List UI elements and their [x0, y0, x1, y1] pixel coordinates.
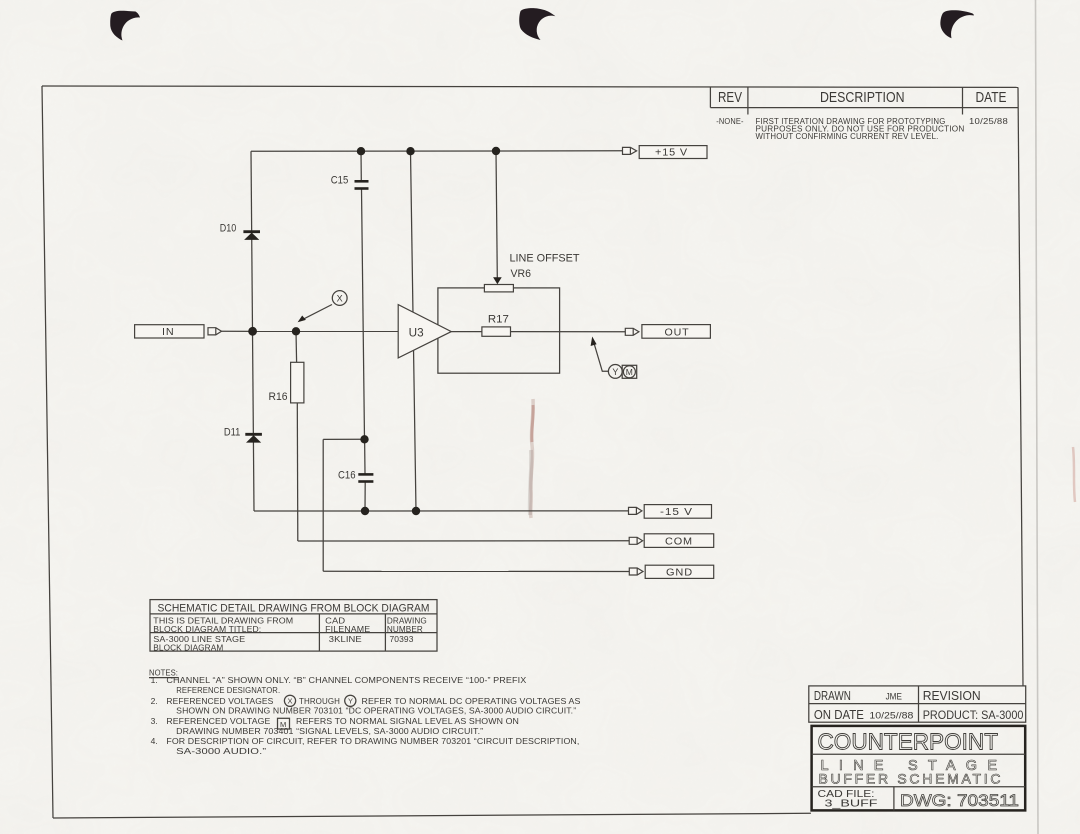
wire GND branch vertical — [322, 439, 324, 571]
wire supply vertical through U3 — [411, 151, 417, 511]
note 2 circled Y — [345, 695, 356, 706]
resistor R16 — [291, 362, 304, 403]
terminal box COM — [644, 534, 714, 548]
junction dot node A — [360, 435, 368, 443]
svg-text:BLOCK DIAGRAM: BLOCK DIAGRAM — [153, 643, 223, 653]
op-amp U3 — [398, 305, 451, 358]
svg-text:SHOWN ON DRAWING NUMBER 703101: SHOWN ON DRAWING NUMBER 703101 “DC OPERA… — [176, 706, 576, 716]
svg-text:IN: IN — [162, 327, 175, 338]
svg-text:FOR DESCRIPTION OF CIRCUIT, RE: FOR DESCRIPTION OF CIRCUIT, REFER TO DRA… — [166, 736, 579, 746]
paper right edge line — [1036, 0, 1039, 834]
svg-text:NUMBER: NUMBER — [387, 624, 423, 634]
svg-text:BUFFER SCHEMATIC: BUFFER SCHEMATIC — [819, 771, 1001, 787]
stain streak right margin — [1073, 447, 1075, 502]
svg-text:REFER TO NORMAL DC OPERATING V: REFER TO NORMAL DC OPERATING VOLTAGES AS — [362, 696, 581, 706]
svg-text:GND: GND — [666, 568, 693, 579]
svg-text:DRAWN: DRAWN — [814, 689, 851, 703]
svg-text:LINE OFFSET: LINE OFFSET — [510, 253, 580, 265]
svg-text:REFERENCED VOLTAGES: REFERENCED VOLTAGES — [166, 696, 273, 706]
wire +15V rail — [251, 150, 622, 153]
svg-text:X: X — [288, 697, 293, 706]
junction dot +15 rail at VR6 drop — [492, 147, 500, 155]
wire node A to C16 — [364, 439, 366, 473]
svg-text:3KLINE: 3KLINE — [329, 634, 362, 644]
wire -15V bus — [254, 510, 629, 512]
svg-text:THROUGH: THROUGH — [299, 696, 340, 706]
hole punch left — [110, 11, 140, 41]
diode D11 — [245, 434, 262, 442]
drawing border top — [42, 86, 1018, 87]
wire GND line — [323, 570, 629, 572]
note 2 circled X — [284, 695, 295, 706]
svg-text:Y: Y — [612, 367, 618, 377]
svg-text:Y: Y — [348, 697, 353, 706]
revision table ruling — [710, 87, 1018, 115]
capacitor C15 — [355, 181, 369, 188]
svg-text:REFERS TO NORMAL SIGNAL LEVEL: REFERS TO NORMAL SIGNAL LEVEL AS SHOWN O… — [296, 716, 519, 726]
terminal arrow GND — [629, 568, 643, 575]
svg-text:70393: 70393 — [390, 634, 414, 644]
node M reference box — [622, 365, 637, 378]
hole punch right — [940, 10, 973, 38]
terminal box OUT — [642, 325, 711, 339]
svg-text:R17: R17 — [488, 313, 509, 325]
wire node A to GND branch horizontal — [323, 438, 364, 440]
svg-text:PRODUCT: SA-3000: PRODUCT: SA-3000 — [923, 708, 1024, 722]
svg-text:COM: COM — [665, 536, 693, 547]
junction dot IN at D10 chain — [248, 327, 257, 336]
junction dot IN at R16 — [292, 327, 300, 335]
terminal box IN — [135, 325, 204, 338]
node X leader arrow — [298, 305, 332, 323]
junction dot +15 rail at C15 — [357, 147, 365, 155]
wire IN to U3 — [222, 330, 399, 332]
terminal arrow OUT — [625, 328, 639, 335]
junction dot +15 rail at supply vertical — [406, 147, 414, 155]
node Y reference circle — [608, 365, 622, 379]
terminal arrow IN — [208, 328, 222, 335]
svg-text:D11: D11 — [224, 427, 241, 439]
wire R16 top — [295, 331, 298, 362]
diode D10 — [243, 232, 260, 240]
terminal box -15V — [644, 505, 711, 519]
svg-text:VR6: VR6 — [511, 268, 532, 280]
resistor R17 — [482, 327, 511, 336]
svg-text:3.: 3. — [151, 716, 158, 726]
junction dot -15 bus at supply vertical — [412, 507, 420, 515]
drawing border right — [1018, 87, 1023, 686]
svg-text:DESCRIPTION: DESCRIPTION — [820, 90, 905, 106]
svg-text:WITHOUT CONFIRMING CURRENT REV: WITHOUT CONFIRMING CURRENT REV LEVEL. — [756, 132, 939, 141]
title block divider CAD FILE / DWG — [893, 787, 895, 811]
svg-text:REFERENCE DESIGNATOR.: REFERENCE DESIGNATOR. — [176, 685, 280, 695]
svg-text:U3: U3 — [409, 328, 424, 340]
svg-text:COUNTERPOINT: COUNTERPOINT — [818, 728, 999, 754]
title block divider under BUFFER SCHEMATIC — [812, 786, 1026, 788]
node X reference circle — [332, 291, 347, 306]
svg-text:DWG: 703511: DWG: 703511 — [900, 791, 1019, 810]
wire R16 bottom to COM — [296, 403, 299, 541]
svg-text:REVISION: REVISION — [923, 689, 981, 703]
svg-text:OUT: OUT — [665, 327, 690, 338]
svg-text:JME: JME — [886, 692, 902, 702]
feedback box — [438, 288, 560, 373]
terminal box +15V — [639, 146, 707, 159]
svg-text:REFERENCED VOLTAGE: REFERENCED VOLTAGE — [166, 716, 270, 726]
svg-text:BLOCK DIAGRAM TITLED:: BLOCK DIAGRAM TITLED: — [153, 624, 261, 634]
svg-text:ON DATE: ON DATE — [814, 708, 864, 722]
svg-text:C16: C16 — [338, 469, 356, 481]
stain streak center — [530, 399, 533, 518]
svg-text:SA-3000 AUDIO.”: SA-3000 AUDIO.” — [176, 746, 266, 756]
potentiometer VR6 body — [484, 285, 513, 292]
title block divider under COUNTERPOINT — [812, 753, 1026, 755]
node Y/M leader arrow — [591, 337, 609, 372]
terminal box GND — [645, 565, 714, 578]
svg-text:10/25//88: 10/25//88 — [869, 711, 913, 721]
svg-text:D10: D10 — [220, 223, 237, 235]
terminal arrow COM — [629, 537, 642, 544]
terminal arrow -15V — [629, 507, 642, 514]
svg-text:3_BUFF: 3_BUFF — [825, 798, 878, 809]
hole punch middle — [519, 8, 555, 40]
notes heading — [149, 668, 178, 678]
wire C15/C16 vertical upper — [360, 151, 362, 180]
svg-text:FILENAME: FILENAME — [325, 624, 370, 634]
wire C15 to node A — [362, 189, 365, 439]
svg-text:R16: R16 — [269, 391, 288, 403]
wire C16 to -15 bus — [364, 482, 366, 511]
svg-text:M: M — [626, 367, 633, 377]
junction dot -15 bus at C16 — [361, 507, 369, 515]
drawing border bottom — [53, 813, 811, 818]
terminal arrow +15V — [623, 147, 637, 154]
svg-text:-NONE-: -NONE- — [716, 117, 744, 126]
svg-text:REV: REV — [718, 90, 742, 106]
svg-text:DRAWING NUMBER 703401 “SIGNAL: DRAWING NUMBER 703401 “SIGNAL LEVELS, SA… — [176, 726, 483, 736]
wire left vertical D10/D11 chain — [251, 151, 254, 511]
svg-text:C15: C15 — [331, 174, 349, 186]
svg-text:-15 V: -15 V — [660, 507, 693, 518]
svg-text:CHANNEL “A” SHOWN ONLY. “B” CH: CHANNEL “A” SHOWN ONLY. “B” CHANNEL COMP… — [166, 675, 526, 685]
capacitor C16 — [358, 474, 373, 481]
svg-text:DATE: DATE — [976, 90, 1007, 106]
svg-text:1.: 1. — [151, 675, 158, 685]
svg-text:10/25/88: 10/25/88 — [969, 117, 1008, 126]
wire U3 output to OUT — [451, 331, 625, 333]
VR6 wiper arrowhead — [493, 277, 502, 284]
note 3 boxed M — [278, 718, 290, 729]
svg-text:2.: 2. — [151, 696, 158, 706]
detail table ruling — [150, 600, 437, 652]
wire COM line — [298, 540, 629, 542]
svg-text:SCHEMATIC DETAIL DRAWING FROM: SCHEMATIC DETAIL DRAWING FROM BLOCK DIAG… — [158, 602, 430, 614]
svg-text:X: X — [337, 293, 343, 303]
wire VR6 drop from +15 rail — [496, 151, 497, 278]
svg-text:+15 V: +15 V — [655, 147, 688, 158]
svg-text:4.: 4. — [151, 736, 158, 746]
drawing border left — [42, 86, 53, 818]
title block outer box — [812, 726, 1026, 811]
drawn table ruling — [809, 686, 1026, 722]
